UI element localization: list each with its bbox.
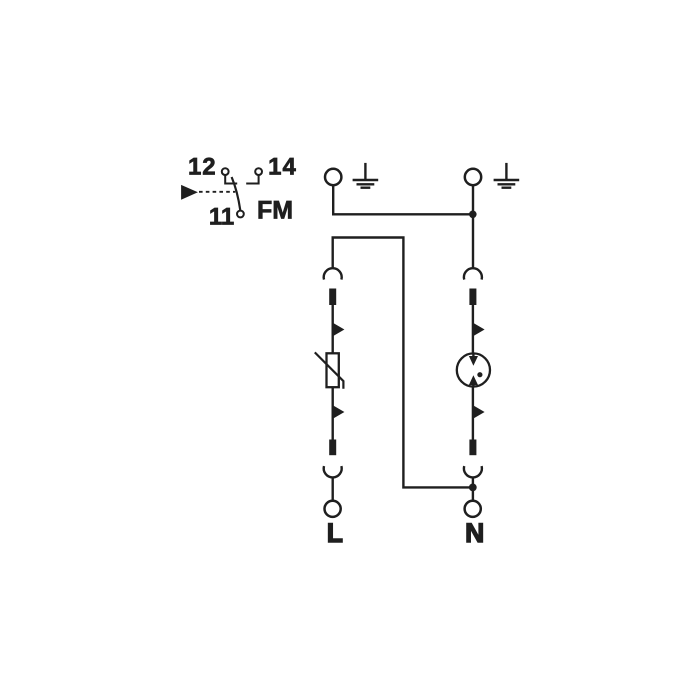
- svg-text:12: 12: [188, 154, 217, 181]
- svg-text:11: 11: [209, 204, 234, 231]
- svg-text:14: 14: [268, 154, 297, 181]
- svg-text:N: N: [465, 518, 484, 548]
- svg-text:FM: FM: [257, 196, 293, 224]
- svg-text:L: L: [327, 518, 343, 548]
